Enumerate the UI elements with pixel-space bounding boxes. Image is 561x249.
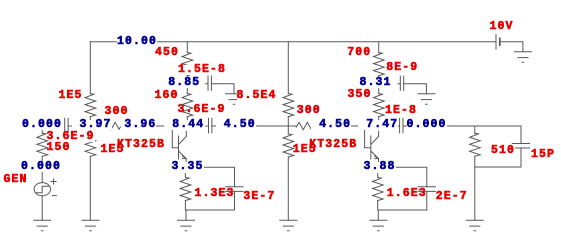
value R5 450 <box>155 48 179 58</box>
wire gen top <box>41 126 43 133</box>
value R2 <box>101 145 125 155</box>
wire node 3.96 to Q1 base <box>156 125 172 127</box>
node 3.88 <box>364 162 396 172</box>
value C8 <box>436 192 468 202</box>
value R8 <box>297 106 321 116</box>
wire R350 stub <box>378 117 380 121</box>
label GEN <box>4 175 28 185</box>
ground C4 <box>418 94 435 104</box>
node 8.31 <box>360 78 392 88</box>
wire gen mid <box>41 156 43 182</box>
resistor R4 300 stage1 <box>104 122 120 129</box>
node 7.47 <box>358 120 398 130</box>
wire node 4.50 to divider2 <box>256 125 297 127</box>
value C6 <box>531 150 555 160</box>
node 3.97 <box>80 120 112 130</box>
wire R160 stub <box>186 117 188 121</box>
node rail 10.00 <box>117 37 157 47</box>
value R12 <box>387 189 427 199</box>
battery V1 10V <box>496 35 523 52</box>
wire stub dot <box>315 126 316 128</box>
label Q1 type <box>117 140 165 150</box>
value C7 <box>243 192 275 202</box>
value R4 <box>105 107 129 117</box>
wire divider2 bottom <box>287 157 289 220</box>
wire divider2 top <box>287 42 289 94</box>
capacitor C2 1.5E-8 plates <box>206 76 234 94</box>
node 8.44 <box>164 120 204 130</box>
capacitor C1 3.6E-9 input <box>65 118 72 132</box>
wire output node <box>447 125 521 127</box>
resistor R7 1E5 lower2 <box>283 134 294 157</box>
value R350 <box>348 90 372 100</box>
value R7 <box>293 145 317 155</box>
wire emitter1 gnd stem <box>185 210 187 220</box>
ground output <box>466 220 483 230</box>
value R10 <box>491 146 515 156</box>
capacitor C7 3E-7 <box>226 187 243 210</box>
wire gen bottom <box>41 196 43 221</box>
resistor R10 510 <box>470 133 481 156</box>
node 8.85 <box>168 78 200 88</box>
wire divider2 mid <box>287 117 289 134</box>
ground divider1 <box>82 220 99 230</box>
node 3.35 <box>172 162 204 172</box>
ground divider2 <box>280 220 297 230</box>
transistor Q2 KT325B <box>365 126 379 163</box>
wire node 3.88 to C8 <box>397 167 427 187</box>
wire 10V power rail <box>90 41 496 43</box>
resistor R12 1.6E3 <box>373 178 384 201</box>
capacitor C6 15P <box>512 126 529 167</box>
wire node 3.35 to C7 <box>204 167 234 187</box>
transistor Q1 KT325B <box>172 126 186 163</box>
wire node 4.50b to Q2 base <box>351 125 364 127</box>
wire divider1 bottom <box>89 156 91 220</box>
value C3 <box>178 105 226 115</box>
value R160 <box>155 91 179 101</box>
wire output junction drop <box>474 126 476 133</box>
capacitor C3 3.6E-9 coupling <box>206 118 216 132</box>
node 4.50b <box>311 120 351 130</box>
node 4.50a <box>216 120 256 130</box>
resistor R9 700 <box>374 53 385 76</box>
wire divider1 mid <box>89 117 91 134</box>
resistor R1 1E5 upper <box>85 94 96 117</box>
wire R12 bottom <box>378 201 427 211</box>
capacitor C5 1E-8 coupling <box>398 118 406 132</box>
value R3 <box>47 143 71 153</box>
resistor R11 1.3E3 <box>180 178 191 201</box>
resistor R3 150 <box>37 133 48 156</box>
node output 0.000 <box>407 120 447 130</box>
resistor R160 squiggle over <box>182 94 193 117</box>
ground battery <box>514 52 531 62</box>
value R11 <box>195 189 235 199</box>
wire Q2 emitter to R12 <box>377 174 379 178</box>
resistor R5 450 <box>182 53 193 76</box>
ground C2 <box>226 94 243 104</box>
generator GEN symbol <box>34 179 56 196</box>
wire R450 top <box>186 42 188 53</box>
value V1 10V <box>490 22 514 32</box>
wire output bottom <box>475 166 521 168</box>
label Q2 type <box>309 140 357 150</box>
value C1 <box>47 132 95 142</box>
value R9 700 <box>347 48 371 58</box>
wire emitter2 gnd stem <box>377 210 379 220</box>
node gen 0.000 <box>21 162 61 172</box>
value R6 <box>237 91 277 101</box>
wire R700-R350 link <box>378 76 380 94</box>
node input 0.000 <box>22 120 62 130</box>
resistor R350 squiggle over <box>374 94 385 117</box>
wire divider1 top <box>89 42 91 94</box>
value R1 <box>59 91 83 101</box>
resistor R6 8.5E4 <box>283 94 294 117</box>
ground GEN <box>34 220 51 230</box>
resistor R8 300 stage2 <box>296 122 312 129</box>
capacitor C8 2E-7 <box>418 187 435 210</box>
node 3.96 <box>124 120 156 130</box>
wire R450-R160 link <box>186 76 188 94</box>
ground emitter2 <box>370 220 387 230</box>
value C5 <box>385 106 417 116</box>
wire R510 bottom <box>474 156 476 220</box>
wire R11 bottom <box>185 201 234 211</box>
value C4 <box>386 63 418 73</box>
capacitor C4 8E-9 plates <box>398 76 427 94</box>
value C2 <box>178 65 226 75</box>
wire Q1 emitter to R11 <box>184 174 186 178</box>
wire R700 top <box>378 42 380 53</box>
resistor R2 1E5 lower <box>85 133 96 156</box>
ground emitter1 <box>178 220 195 230</box>
